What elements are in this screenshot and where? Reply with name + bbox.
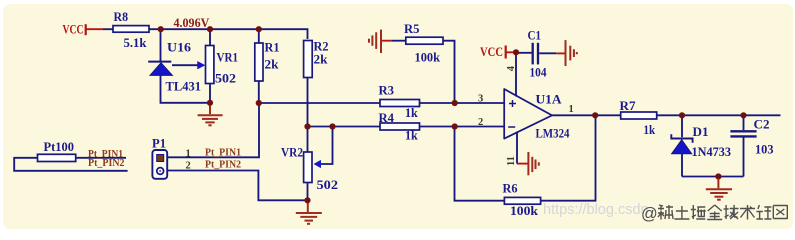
wire op-amp output [552,114,621,116]
ground at pin11 [528,152,538,175]
svg-text:U16: U16 [167,40,192,55]
wire VR2 wiper [321,127,333,165]
wire rail B (pin3) [259,102,505,104]
svg-text:2: 2 [478,117,483,128]
resistor R6 [504,197,540,204]
wire U16 ref arrow line [172,64,198,66]
wire VCC to R8 [87,28,104,30]
svg-text:1N4733: 1N4733 [692,145,732,159]
svg-text:C2: C2 [754,117,770,132]
svg-text:R7: R7 [620,98,637,113]
diode D1 1N4733 (zener) [671,124,731,159]
wire R6 right riser to output [541,115,596,200]
svg-text:Pt_PIN1: Pt_PIN1 [205,146,241,158]
wire C2 top [743,115,745,130]
svg-text:1k: 1k [644,122,656,137]
ground under VR1 [198,106,223,126]
wire op-amp pin11 [516,132,518,164]
wire D1 bottom [681,154,683,177]
junction VCC/C1/pin4 [513,49,519,55]
svg-text:R3: R3 [379,83,395,98]
resistor R4 [380,123,420,130]
resistor R3 [380,100,420,107]
svg-text:C1: C1 [528,27,542,42]
wire R2 body drop to rail C [307,77,309,127]
capacitor C1 [528,27,547,79]
wire Pt100 right (Pt_PIN1) [76,157,126,159]
svg-text:2k: 2k [265,57,280,72]
op-amp U1A [504,89,570,140]
wire TL431 anode to ground node [161,75,211,102]
wire op-amp pin4 [515,52,517,96]
svg-text:Pt_PIN2: Pt_PIN2 [205,158,241,170]
wire R5 left to ground [381,40,392,42]
svg-text:VCC: VCC [480,45,503,59]
svg-text:Pt100: Pt100 [44,139,75,154]
svg-text:LM324: LM324 [536,125,570,140]
junction TL431/VR1 ground node [207,100,213,106]
junction R4/R6 node [452,123,458,129]
svg-text:1k: 1k [405,128,418,143]
resistor R1 [255,43,263,81]
junction VR1 top [207,26,213,32]
diode U16 TL431 [148,40,205,94]
svg-text:R5: R5 [404,21,420,36]
wire R7 out to C2 and right [682,114,781,116]
svg-text:Pt_PIN2: Pt_PIN2 [88,157,125,169]
connector P1 [152,136,167,179]
svg-text:1: 1 [569,104,574,115]
svg-text:502: 502 [215,71,236,86]
junction rail C / R2-VR2 [304,123,310,129]
ground left of R5 [369,30,381,53]
junction C2 top [740,112,746,118]
svg-text:P1: P1 [152,136,166,151]
wire rail C (pin2) [308,126,505,128]
resistor R7 [621,112,657,119]
svg-text:U1A: U1A [536,91,563,106]
resistor R5 [406,37,443,44]
svg-text:11: 11 [506,156,517,166]
wire D1 top [681,115,683,137]
junction R7/D1 node [679,112,685,118]
svg-text:R1: R1 [265,40,280,55]
wire VR1 bottom [209,84,211,103]
junction ground node D1/C2 [715,173,721,179]
ground under VR2 [296,203,322,224]
potentiometer VR2 [281,145,338,193]
potentiometer VR1 [206,46,239,86]
svg-text:104: 104 [530,64,547,79]
svg-text:103: 103 [755,141,774,156]
svg-text:5.1k: 5.1k [124,35,148,50]
svg-text:502: 502 [317,177,339,192]
wire R7 right [657,114,682,116]
ground under D1/C2 [706,179,732,200]
svg-text:R8: R8 [114,9,129,24]
resistor Pt100 [38,154,76,161]
wire pin11 to ground [517,163,528,165]
resistor R2 [304,41,313,78]
junction VR2 bottom [304,197,310,203]
wire VR1 top [209,29,211,45]
junction R1 top [256,26,262,32]
svg-text:VCC: VCC [63,23,84,37]
junction rail C / wiper [329,123,335,129]
svg-text:TL431: TL431 [166,78,202,93]
wire VR2 top stub [307,127,309,153]
wire bottom D1-C2 [682,176,744,178]
wire R5 right drop [443,41,455,103]
resistor R8 [113,26,149,33]
svg-text:100k: 100k [415,50,441,65]
wire VR2 bottom [307,183,309,201]
svg-text:2: 2 [186,160,191,171]
svg-text:https://blog.csdn: https://blog.csdn [543,202,649,218]
svg-text:R6: R6 [503,181,518,196]
wire P1 pin2 to VR2 bottom [167,171,307,201]
watermark juejin [641,205,787,223]
wire U16 cathode drop [160,29,162,61]
wire rail 4.096V [149,29,308,39]
wire P1 pin1 to rail B [167,103,259,157]
wire Pt100 left loop (Pt_PIN2) [14,158,127,171]
svg-text:100k: 100k [510,203,539,218]
wire C2 bottom [743,138,745,177]
junction 4.096V at R8 [158,26,164,32]
wire R6 left riser [455,127,505,201]
junction R1 bottom / rail B [256,100,262,106]
svg-text:D1: D1 [693,124,709,139]
svg-text:4.096V: 4.096V [174,16,210,30]
wire C1 left [507,51,517,53]
wire R1 top [258,29,260,43]
capacitor C2 [730,117,774,157]
svg-text:2k: 2k [314,52,329,67]
ground right of C1 [566,40,577,66]
svg-text:R4: R4 [379,110,395,125]
wire R1 bottom to rail B [258,81,260,103]
wire C1 right to ground [539,52,556,54]
svg-text:VR2: VR2 [281,145,303,160]
svg-text:4: 4 [506,65,517,71]
junction R3/R5 node [452,100,458,106]
svg-text:1: 1 [186,148,191,159]
junction output node [592,112,598,118]
svg-text:3: 3 [478,93,483,104]
svg-text:@: @ [641,205,658,223]
svg-text:1k: 1k [405,105,418,120]
svg-text:VR1: VR1 [217,50,239,65]
